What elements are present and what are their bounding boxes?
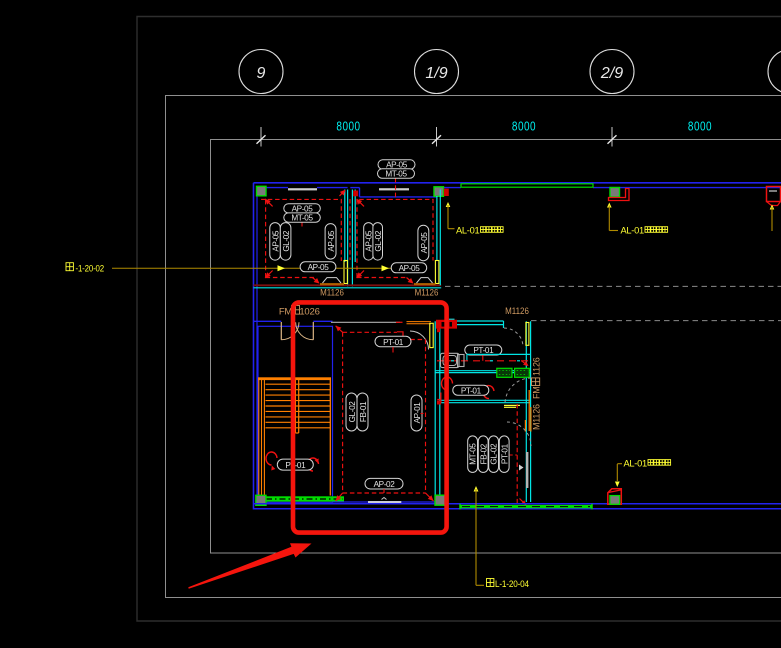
svg-text:8000: 8000: [336, 119, 360, 134]
svg-text:GL-02: GL-02: [282, 230, 291, 252]
svg-text:FM: FM: [279, 307, 293, 318]
svg-text:AP-05: AP-05: [272, 230, 281, 252]
svg-text:PT-01: PT-01: [285, 461, 306, 470]
svg-text:M1126: M1126: [532, 404, 542, 430]
svg-text:FB-01: FB-01: [359, 401, 368, 422]
svg-text:FM: FM: [532, 386, 542, 399]
svg-text:GL-02: GL-02: [374, 230, 383, 252]
svg-text:MT-05: MT-05: [291, 214, 313, 223]
svg-text:2/9: 2/9: [600, 65, 623, 82]
svg-text:AP-05: AP-05: [420, 232, 429, 254]
svg-text:MT-05: MT-05: [385, 170, 407, 179]
svg-text:AL-01: AL-01: [621, 226, 644, 236]
svg-text:AP-05: AP-05: [386, 161, 408, 170]
svg-text:MT-05: MT-05: [469, 443, 478, 465]
svg-text:GL-02: GL-02: [348, 401, 357, 423]
svg-text:1126: 1126: [532, 357, 542, 376]
svg-text:AP-05: AP-05: [365, 230, 374, 252]
svg-text:8000: 8000: [688, 119, 712, 134]
svg-text:FB-02: FB-02: [479, 443, 488, 464]
svg-text:1026: 1026: [299, 307, 319, 318]
svg-text:M1126: M1126: [320, 287, 344, 298]
svg-text:AP-05: AP-05: [308, 263, 330, 272]
svg-text:AP-01: AP-01: [413, 402, 422, 424]
svg-text:AL-01: AL-01: [624, 459, 647, 469]
svg-text:AP-05: AP-05: [327, 230, 336, 252]
svg-text:AL-01: AL-01: [456, 226, 479, 236]
svg-text:9: 9: [257, 65, 266, 82]
svg-text:PT-01: PT-01: [383, 338, 404, 347]
svg-text:PT-01: PT-01: [461, 386, 482, 395]
svg-text:8000: 8000: [512, 119, 536, 134]
svg-text:1/9: 1/9: [425, 65, 447, 82]
svg-text:M1126: M1126: [415, 287, 439, 298]
svg-text:AP-05: AP-05: [292, 204, 314, 213]
svg-text:GL-02: GL-02: [490, 443, 499, 465]
svg-text:-1-20-02: -1-20-02: [76, 263, 105, 274]
svg-text:PT-01: PT-01: [500, 443, 509, 464]
svg-text:AP-02: AP-02: [374, 480, 396, 489]
svg-text:AP-05: AP-05: [399, 264, 421, 273]
svg-text:L-1-20-04: L-1-20-04: [495, 579, 529, 590]
svg-text:M1126: M1126: [505, 305, 529, 316]
